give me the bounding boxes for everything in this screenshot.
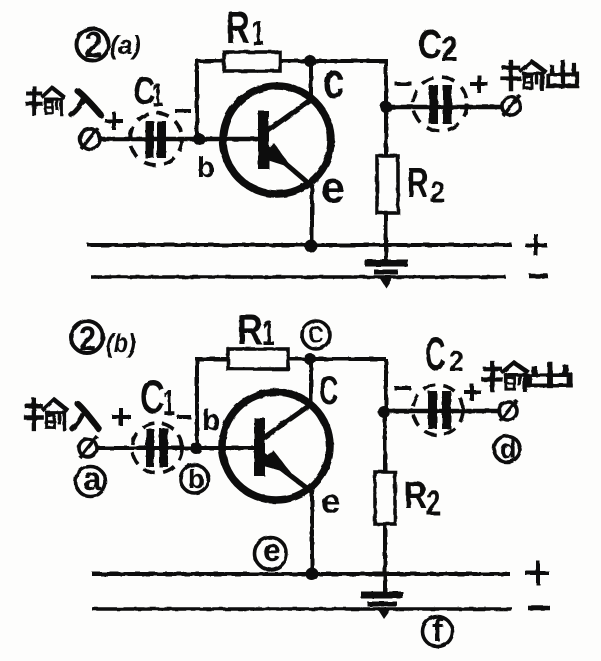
circled node d xyxy=(494,434,520,464)
svg-text:R: R xyxy=(404,474,427,516)
label C1 circuit a xyxy=(133,70,163,113)
minus sign rail circuit a xyxy=(529,274,548,279)
label C2 circuit b xyxy=(425,329,464,381)
svg-text:R: R xyxy=(407,159,428,207)
label R1 circuit a xyxy=(226,3,264,53)
resistor R2 circuit a xyxy=(377,110,398,263)
plus sign at C2 right, circuit b xyxy=(464,384,481,401)
resistor R1 circuit b xyxy=(228,349,288,369)
svg-text:C: C xyxy=(140,371,165,424)
output terminal circuit a xyxy=(502,95,520,116)
label R1 circuit b xyxy=(237,307,275,353)
svg-text:1: 1 xyxy=(262,314,275,353)
svg-text:2: 2 xyxy=(79,320,96,358)
junction dot collector top, circuit b xyxy=(304,353,316,365)
plus sign rail circuit a xyxy=(525,234,547,256)
junction dot emitter to rail, circuit b xyxy=(306,568,319,581)
label R2 circuit a xyxy=(407,159,445,208)
svg-text:R: R xyxy=(237,307,263,353)
circled node e xyxy=(255,532,287,570)
svg-text:1: 1 xyxy=(252,15,264,53)
right vertical wire from top to C2 node, circuit b xyxy=(384,359,388,414)
label input (shuru) circuit a xyxy=(27,88,101,115)
label b circuit b xyxy=(202,404,220,437)
wire node b up to R1, circuit b xyxy=(197,359,386,448)
svg-text:1: 1 xyxy=(163,383,175,423)
junction dot at C2/R2 node circuit b xyxy=(378,406,390,418)
capacitor C1 circuit b xyxy=(132,423,182,473)
svg-text:b: b xyxy=(202,404,220,437)
resistor R2 circuit b xyxy=(375,414,395,595)
resistor R1 circuit a xyxy=(224,52,280,71)
minus sign at C1 right, circuit b xyxy=(177,415,191,419)
svg-text:(a): (a) xyxy=(110,32,141,60)
emitter wire down circuit a xyxy=(310,186,314,247)
supply rail top (+) circuit a xyxy=(87,243,512,247)
svg-text:2: 2 xyxy=(430,175,445,208)
svg-text:e: e xyxy=(263,532,281,568)
circled node b xyxy=(181,464,209,494)
figure label 2(b) xyxy=(71,320,136,359)
label output (shuchu) circuit b xyxy=(484,363,570,390)
plus sign at C1 left, circuit a xyxy=(105,112,123,130)
svg-text:d: d xyxy=(500,434,517,464)
figure label 2(a) xyxy=(77,25,141,65)
svg-text:b: b xyxy=(197,152,215,184)
supply rail bottom (-) circuit a xyxy=(91,275,506,279)
svg-text:(b): (b) xyxy=(106,330,136,358)
input terminal circuit a xyxy=(80,128,100,149)
minus sign at C2 left, circuit b xyxy=(394,386,411,390)
supply rail top (+) circuit b xyxy=(92,572,510,576)
svg-text:C: C xyxy=(418,20,442,66)
plus sign at C2 right, circuit a xyxy=(470,75,488,93)
svg-text:a: a xyxy=(83,460,102,497)
wire node b up to R1, circuit a xyxy=(197,61,388,139)
svg-text:1: 1 xyxy=(152,77,163,113)
svg-text:b: b xyxy=(188,464,205,494)
ground symbol circuit b xyxy=(361,595,403,619)
junction dot collector top, circuit a xyxy=(304,55,316,67)
capacitor C2 circuit a xyxy=(413,77,467,131)
svg-text:2: 2 xyxy=(449,345,464,378)
circled node a xyxy=(76,460,106,497)
circled node f xyxy=(423,612,453,648)
right vertical wire from top to C2 node, circuit a xyxy=(384,61,388,110)
output terminal circuit b xyxy=(499,400,517,421)
circled node C top xyxy=(302,321,330,349)
label input (shuru) circuit b xyxy=(26,400,99,429)
minus sign at C2 left, circuit a xyxy=(395,82,412,86)
wire through C2 to output terminal, circuit b xyxy=(384,409,499,414)
label C1 circuit b xyxy=(140,371,175,424)
label C2 circuit a xyxy=(418,20,458,68)
collector wire circuit b xyxy=(309,359,313,407)
svg-text:2: 2 xyxy=(441,29,458,69)
wire input to node b, circuit a xyxy=(100,137,258,142)
minus sign at C1 right, circuit a xyxy=(175,109,191,113)
label R2 circuit b xyxy=(404,474,441,522)
plus sign at C1 left, circuit b xyxy=(112,408,131,426)
ground symbol circuit a xyxy=(365,263,408,288)
label c circuit a xyxy=(323,52,344,110)
plus sign rail circuit b xyxy=(525,561,549,585)
svg-text:R: R xyxy=(226,3,250,53)
label e circuit a xyxy=(321,164,345,212)
capacitor C2 circuit b xyxy=(413,385,463,435)
label output (shuchu) circuit a xyxy=(503,62,577,89)
transistor Q circuit a xyxy=(223,86,331,194)
capacitor C1 circuit a xyxy=(130,113,182,165)
svg-text:f: f xyxy=(432,612,443,648)
label e circuit b xyxy=(321,482,340,521)
junction dot emitter to rail, circuit a xyxy=(305,240,318,253)
transistor Q circuit b xyxy=(222,392,330,500)
svg-text:2: 2 xyxy=(85,25,103,65)
junction dot at C2/R2 node circuit a xyxy=(380,101,392,113)
label C collector circuit b xyxy=(319,369,338,414)
supply rail bottom (-) circuit b xyxy=(92,607,512,611)
node b junction dot circuit b xyxy=(190,442,202,454)
node b junction dot circuit a xyxy=(193,133,205,145)
wire through C2 to output terminal, circuit a xyxy=(386,105,502,110)
svg-text:e: e xyxy=(321,164,345,212)
input terminal circuit b xyxy=(79,436,97,458)
svg-text:c: c xyxy=(323,52,344,110)
emitter wire down circuit b xyxy=(310,490,314,576)
collector wire circuit a xyxy=(309,61,313,103)
minus sign rail circuit b xyxy=(528,606,550,611)
svg-text:C: C xyxy=(319,369,338,414)
svg-text:e: e xyxy=(321,482,340,521)
svg-text:C: C xyxy=(309,321,324,348)
label b circuit a xyxy=(197,152,215,184)
svg-text:2: 2 xyxy=(426,483,441,522)
wire input to node b, circuit b xyxy=(97,446,258,450)
svg-text:C: C xyxy=(425,329,445,381)
